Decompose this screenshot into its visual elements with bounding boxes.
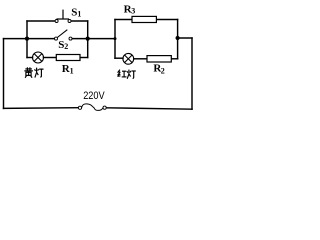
svg-text:220V: 220V	[83, 90, 105, 102]
svg-text:2: 2	[64, 42, 68, 51]
svg-text:3: 3	[131, 7, 135, 16]
svg-text:1: 1	[77, 9, 81, 18]
svg-text:2: 2	[161, 67, 165, 76]
svg-text:1: 1	[70, 67, 74, 76]
